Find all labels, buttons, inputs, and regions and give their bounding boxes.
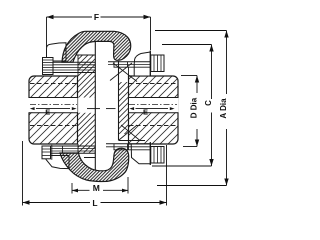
clamp ring bottom-left <box>46 156 69 169</box>
gap column right face <box>118 61 120 141</box>
right hub bore band <box>129 98 179 112</box>
svg-text:M: M <box>93 183 100 193</box>
bolt band top-left <box>44 62 95 72</box>
right hub body <box>129 76 179 144</box>
dimension L <box>23 141 167 206</box>
svg-text:E: E <box>143 107 148 116</box>
gap column left face <box>94 42 96 171</box>
bolt band bottom-right <box>106 144 151 150</box>
left hub bore band <box>28 98 78 112</box>
bolt band bottom-left <box>46 146 95 153</box>
step line above bottom clamp right <box>119 140 145 142</box>
bolt head top-left <box>43 58 54 75</box>
dimension C <box>152 45 212 167</box>
svg-text:F: F <box>94 12 99 22</box>
svg-text:L: L <box>92 198 97 208</box>
bolt head bottom-left <box>42 145 52 160</box>
screw cross top-right <box>110 63 137 82</box>
svg-text:C: C <box>204 100 213 106</box>
tyre bottom section <box>60 148 129 181</box>
E dim tick in gap right <box>106 108 116 110</box>
clamp block top-right <box>134 52 150 76</box>
right hub keyway hidden line top <box>129 83 177 85</box>
E dim tick crossing left face <box>87 108 100 110</box>
dimension A Dia <box>155 31 227 186</box>
left hub keyway hidden line top <box>30 83 77 85</box>
dimension M <box>72 177 128 194</box>
dimension F <box>47 17 151 50</box>
dimension D Dia <box>181 76 197 147</box>
dimension E left <box>30 107 35 110</box>
right hub keyway hidden line bottom <box>129 125 177 127</box>
left hub body <box>29 76 78 144</box>
left hub centreline <box>30 103 77 105</box>
tyre top section <box>62 31 131 62</box>
screw cross bottom-right <box>119 125 140 141</box>
clamp block bottom-right <box>131 144 150 164</box>
right flange plate hatched <box>119 67 129 150</box>
svg-text:A Dia: A Dia <box>219 98 228 119</box>
right hub centreline <box>129 103 177 105</box>
bolt band top-right <box>108 62 151 67</box>
left hub keyway hidden line bottom <box>30 125 77 127</box>
dimension E right <box>129 107 134 110</box>
bolt head top-right <box>151 55 164 72</box>
left flange plate hatched <box>76 55 95 158</box>
clamp ring top-left <box>47 43 67 61</box>
svg-text:E: E <box>45 107 50 116</box>
bolt head bottom-right <box>151 147 164 164</box>
svg-text:D Dia: D Dia <box>190 97 199 118</box>
